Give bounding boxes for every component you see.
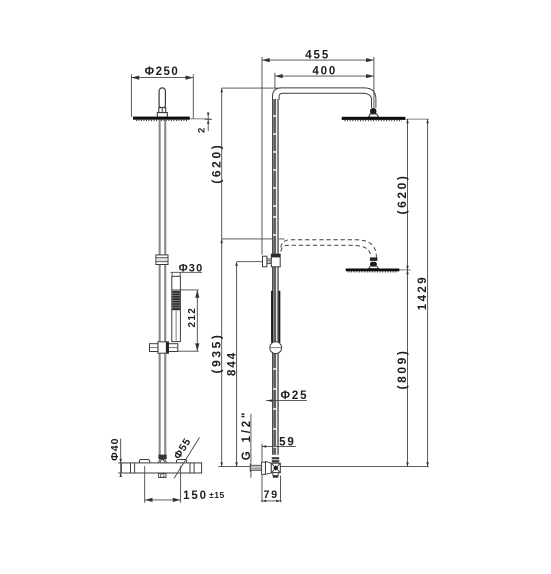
svg-text:212: 212 — [187, 307, 198, 328]
svg-text:59: 59 — [279, 437, 296, 449]
svg-text:844: 844 — [227, 351, 239, 376]
svg-text:79: 79 — [263, 489, 278, 501]
svg-text:Φ40: Φ40 — [109, 438, 121, 461]
svg-text:(620): (620) — [209, 143, 223, 184]
svg-text:Φ25: Φ25 — [281, 390, 309, 402]
svg-text:G 1/2": G 1/2" — [241, 410, 253, 460]
svg-text:150: 150 — [183, 490, 208, 502]
svg-text:(809): (809) — [395, 348, 409, 389]
svg-text:(620): (620) — [395, 173, 409, 214]
svg-text:(935): (935) — [209, 332, 223, 373]
svg-text:Φ250: Φ250 — [145, 66, 180, 78]
svg-text:±15: ±15 — [209, 490, 225, 500]
svg-text:2: 2 — [197, 127, 208, 133]
svg-text:1429: 1429 — [417, 275, 429, 310]
